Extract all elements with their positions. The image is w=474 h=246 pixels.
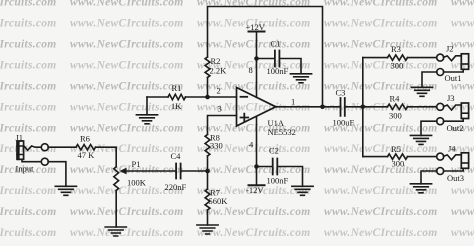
resistor R8 bbox=[205, 135, 210, 157]
svg-text:R2: R2 bbox=[211, 56, 221, 66]
svg-text:www.NewCIrcuits.com: www.NewCIrcuits.com bbox=[0, 185, 57, 197]
svg-text:Out2: Out2 bbox=[447, 123, 464, 133]
svg-text:8: 8 bbox=[249, 65, 253, 75]
resistor R2 bbox=[205, 57, 210, 78]
svg-text:R6: R6 bbox=[80, 134, 90, 144]
-12V supply bar bbox=[249, 184, 265, 186]
svg-text:Input: Input bbox=[16, 164, 35, 174]
svg-text:NE5532: NE5532 bbox=[268, 127, 296, 137]
svg-text:+12V: +12V bbox=[246, 22, 266, 32]
ground R1 bbox=[136, 115, 157, 124]
+12V supply bar bbox=[249, 31, 265, 33]
jack J3 tip contact bbox=[437, 103, 444, 110]
node pin2 junction bbox=[205, 95, 210, 100]
svg-text:www.NewCIrcuits.com: www.NewCIrcuits.com bbox=[70, 80, 184, 92]
svg-text:100nF: 100nF bbox=[267, 66, 289, 76]
wire output row bbox=[276, 106, 340, 108]
svg-text:J4: J4 bbox=[448, 144, 456, 154]
svg-text:1: 1 bbox=[291, 97, 295, 107]
capacitor C2 bbox=[257, 166, 272, 168]
potentiometer P1 bbox=[114, 167, 119, 191]
svg-text:www.NewCIrcuits.com: www.NewCIrcuits.com bbox=[197, 39, 311, 51]
svg-text:2: 2 bbox=[217, 86, 221, 96]
svg-text:100nF: 100nF bbox=[267, 176, 289, 186]
svg-text:www.NewCIrcuits.com: www.NewCIrcuits.com bbox=[324, 206, 438, 218]
wire bus to R3 bbox=[363, 57, 388, 59]
wire J2 sleeve to ground bbox=[422, 72, 437, 87]
ground J3 bbox=[410, 135, 431, 144]
svg-text:R5: R5 bbox=[391, 144, 401, 154]
svg-text:www.NewCIrcuits.com: www.NewCIrcuits.com bbox=[324, 18, 438, 30]
jack J4 body bbox=[461, 153, 468, 169]
capacitor C4 bbox=[176, 164, 181, 179]
svg-text:www.NewCIrcuits.com: www.NewCIrcuits.com bbox=[451, 39, 474, 51]
resistor R6 bbox=[76, 145, 96, 150]
svg-text:C2: C2 bbox=[269, 146, 279, 156]
svg-text:C4: C4 bbox=[171, 151, 182, 161]
svg-text:www.NewCIrcuits.com: www.NewCIrcuits.com bbox=[0, 39, 57, 51]
svg-text:www.NewCIrcuits.com: www.NewCIrcuits.com bbox=[70, 39, 184, 51]
jack J1 body bbox=[17, 141, 24, 159]
svg-text:www.NewCIrcuits.com: www.NewCIrcuits.com bbox=[451, 0, 474, 9]
svg-text:www.NewCIrcuits.com: www.NewCIrcuits.com bbox=[324, 0, 438, 9]
svg-text:J1: J1 bbox=[16, 133, 24, 143]
jack J2 body bbox=[461, 54, 468, 70]
capacitor C1 bbox=[257, 58, 274, 60]
node C4/R8/R7 bbox=[205, 169, 210, 174]
svg-text:www.NewCIrcuits.com: www.NewCIrcuits.com bbox=[70, 0, 184, 9]
ground J2 bbox=[411, 87, 432, 96]
jack J1 tip contact bbox=[24, 146, 42, 151]
svg-text:Out1: Out1 bbox=[445, 73, 462, 83]
svg-text:www.NewCIrcuits.com: www.NewCIrcuits.com bbox=[0, 206, 57, 218]
wire bus to R4 bbox=[363, 106, 388, 108]
svg-text:100uF: 100uF bbox=[333, 118, 355, 128]
svg-text:-12V: -12V bbox=[246, 185, 264, 195]
power +12V bbox=[256, 32, 258, 98]
svg-text:www.NewCIrcuits.com: www.NewCIrcuits.com bbox=[0, 122, 57, 134]
svg-text:47 K: 47 K bbox=[78, 150, 96, 160]
ground J1 bbox=[55, 186, 76, 195]
svg-text:www.NewCIrcuits.com: www.NewCIrcuits.com bbox=[0, 80, 57, 92]
svg-text:www.NewCIrcuits.com: www.NewCIrcuits.com bbox=[0, 0, 57, 9]
resistor R3 bbox=[388, 55, 408, 60]
svg-text:www.NewCIrcuits.com: www.NewCIrcuits.com bbox=[197, 0, 311, 9]
ground P1 bbox=[105, 227, 126, 236]
resistor R7 bbox=[207, 171, 209, 189]
svg-text:J2: J2 bbox=[446, 44, 454, 54]
svg-text:www.NewCIrcuits.com: www.NewCIrcuits.com bbox=[451, 227, 474, 239]
wire pin3 row bbox=[208, 116, 237, 135]
wire J1 tip to R6 bbox=[48, 146, 76, 148]
svg-text:220nF: 220nF bbox=[165, 182, 187, 192]
svg-text:1K: 1K bbox=[171, 101, 182, 111]
svg-text:300: 300 bbox=[392, 159, 405, 169]
svg-text:2.2K: 2.2K bbox=[210, 66, 228, 76]
svg-text:www.NewCIrcuits.com: www.NewCIrcuits.com bbox=[451, 18, 474, 30]
svg-text:R4: R4 bbox=[390, 94, 401, 104]
wire R1 to ground bbox=[146, 97, 148, 115]
svg-text:www.NewCIrcuits.com: www.NewCIrcuits.com bbox=[324, 39, 438, 51]
svg-text:www.NewCIrcuits.com: www.NewCIrcuits.com bbox=[0, 18, 57, 30]
svg-text:www.NewCIrcuits.com: www.NewCIrcuits.com bbox=[70, 206, 184, 218]
wire J1 sleeve to ground bbox=[48, 162, 66, 187]
svg-text:www.NewCIrcuits.com: www.NewCIrcuits.com bbox=[70, 59, 184, 71]
potentiometer P1 wiper arrow bbox=[120, 168, 127, 175]
node C3/bus bbox=[361, 105, 366, 110]
svg-text:100K: 100K bbox=[127, 178, 147, 188]
ground J4 bbox=[410, 184, 431, 193]
jack J2 sleeve contact bbox=[437, 69, 444, 76]
wire P1 wiper to C4 bbox=[127, 170, 176, 172]
svg-text:www.NewCIrcuits.com: www.NewCIrcuits.com bbox=[451, 206, 474, 218]
svg-text:www.NewCIrcuits.com: www.NewCIrcuits.com bbox=[197, 80, 311, 92]
wire J4 sleeve to ground bbox=[421, 171, 437, 184]
jack J3 sleeve contact bbox=[437, 118, 444, 125]
resistor R4 bbox=[388, 104, 408, 109]
wire R6 to P1 bbox=[96, 147, 117, 167]
op-amp U1A non-inverting input mark bbox=[241, 114, 249, 122]
svg-text:J3: J3 bbox=[447, 93, 455, 103]
wire J3 sleeve to ground bbox=[421, 121, 437, 135]
svg-text:www.NewCIrcuits.com: www.NewCIrcuits.com bbox=[324, 59, 438, 71]
svg-text:www.NewCIrcuits.com: www.NewCIrcuits.com bbox=[70, 101, 184, 113]
svg-text:P1: P1 bbox=[132, 159, 141, 169]
svg-text:www.NewCIrcuits.com: www.NewCIrcuits.com bbox=[70, 122, 184, 134]
node V- / C2 bbox=[254, 164, 259, 169]
jack J3 body bbox=[461, 103, 468, 119]
jack J4 sleeve contact bbox=[437, 168, 444, 175]
resistor lead to J3 bbox=[408, 106, 437, 108]
svg-text:300: 300 bbox=[389, 111, 402, 121]
wire pin2 row bbox=[147, 96, 237, 98]
svg-text:300: 300 bbox=[391, 61, 404, 71]
svg-text:www.NewCIrcuits.com: www.NewCIrcuits.com bbox=[197, 206, 311, 218]
jack J1 sleeve contact bbox=[22, 159, 42, 161]
resistor R1 bbox=[168, 94, 186, 99]
svg-text:330: 330 bbox=[210, 141, 223, 151]
resistor lead to J2 bbox=[408, 57, 437, 59]
power -12V bbox=[256, 116, 258, 185]
svg-text:Out3: Out3 bbox=[447, 173, 464, 183]
svg-text:3: 3 bbox=[218, 104, 222, 114]
svg-text:www.NewCIrcuits.com: www.NewCIrcuits.com bbox=[70, 227, 184, 239]
wire output bus bbox=[362, 58, 364, 157]
op-amp U1A bbox=[237, 88, 276, 127]
node output/feedback bbox=[320, 105, 325, 110]
node V+ / C1 bbox=[254, 56, 259, 61]
svg-text:www.NewCIrcuits.com: www.NewCIrcuits.com bbox=[70, 18, 184, 30]
wire feedback top bbox=[208, 7, 323, 107]
svg-text:R3: R3 bbox=[391, 44, 401, 54]
resistor R5 bbox=[388, 154, 408, 159]
svg-text:www.NewCIrcuits.com: www.NewCIrcuits.com bbox=[0, 227, 57, 239]
wire bus to R5 bbox=[363, 156, 388, 158]
svg-text:www.NewCIrcuits.com: www.NewCIrcuits.com bbox=[324, 227, 438, 239]
ground R7 bbox=[197, 225, 218, 234]
svg-text:560K: 560K bbox=[209, 196, 229, 206]
svg-text:C3: C3 bbox=[336, 88, 346, 98]
svg-text:www.NewCIrcuits.com: www.NewCIrcuits.com bbox=[451, 185, 474, 197]
svg-text:C1: C1 bbox=[271, 39, 281, 49]
jack J2 tip contact bbox=[437, 54, 444, 61]
svg-text:www.NewCIrcuits.com: www.NewCIrcuits.com bbox=[0, 59, 57, 71]
resistor lead to J4 bbox=[408, 156, 437, 158]
svg-text:R1: R1 bbox=[172, 83, 182, 93]
capacitor C3 bbox=[341, 98, 345, 116]
ground C1 bbox=[290, 74, 311, 83]
jack J4 tip contact bbox=[437, 153, 444, 160]
op-amp U1A inverting input mark bbox=[241, 96, 248, 98]
ground C2 bbox=[292, 186, 313, 195]
svg-text:www.NewCIrcuits.com: www.NewCIrcuits.com bbox=[0, 101, 57, 113]
